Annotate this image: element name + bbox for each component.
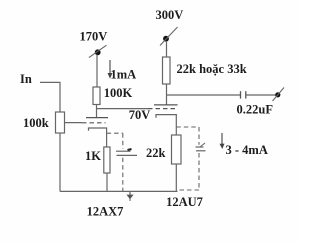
ground symbol (arrow) xyxy=(126,191,133,201)
wire cap to output terminal xyxy=(246,94,276,96)
node 70V label xyxy=(129,108,151,122)
resistor 22k (V2 cathode) xyxy=(172,135,182,164)
output terminal node xyxy=(273,88,285,102)
triode V2 plate xyxy=(154,104,178,106)
value label 0.22uF xyxy=(237,103,274,117)
wire C2 to ground (dashed) xyxy=(178,153,199,190)
svg-text:12AX7: 12AX7 xyxy=(87,205,124,219)
wire cathode to bypass cap C2 (dashed) xyxy=(176,127,199,145)
triode V1 cathode xyxy=(89,128,107,147)
svg-text:100K: 100K xyxy=(104,86,133,100)
capacitor C2 (V2 cathode bypass) xyxy=(196,143,206,151)
svg-text:300V: 300V xyxy=(156,8,184,22)
resistor 1K (V1 cathode) xyxy=(104,147,110,173)
power node 300V label xyxy=(156,8,184,22)
value label 3 - 4mA xyxy=(226,143,268,157)
value label 100K xyxy=(104,86,133,100)
wire R to V2 plate xyxy=(166,84,168,105)
wire 1K bottom to ground bus xyxy=(106,173,108,191)
wire 170V to R plate xyxy=(96,55,98,88)
svg-text:22k: 22k xyxy=(146,146,166,160)
triode V1 grid xyxy=(82,122,106,124)
tube label 12AU7 xyxy=(166,195,203,209)
svg-text:170V: 170V xyxy=(80,30,108,44)
wire C1 to ground bus (dashed) xyxy=(122,158,124,191)
triode V2 cathode xyxy=(156,115,176,135)
resistor 22k/33k (V2 plate load) xyxy=(163,57,171,84)
svg-text:In: In xyxy=(20,72,32,86)
value label 22k xyxy=(146,146,166,160)
wire 22k bottom to ground bus xyxy=(175,164,177,191)
current arrow 1mA xyxy=(108,60,113,79)
value label 1K xyxy=(85,149,101,163)
svg-text:100k: 100k xyxy=(23,116,49,130)
value label 1mA xyxy=(111,68,137,82)
current arrow 3-4mA xyxy=(220,133,225,149)
wire 300V to R plate 2 xyxy=(166,41,168,57)
tube label 12AX7 xyxy=(87,205,124,219)
svg-text:70V: 70V xyxy=(129,108,151,122)
resistor 100K (V1 plate load) xyxy=(93,87,100,105)
ground bus wire xyxy=(60,190,178,192)
svg-text:3 - 4mA: 3 - 4mA xyxy=(226,143,268,157)
triode V1 plate xyxy=(86,117,108,119)
value label 22k hoac 33k xyxy=(177,62,247,76)
svg-text:0.22uF: 0.22uF xyxy=(237,103,274,117)
power node 300V terminal xyxy=(160,27,178,46)
node In label xyxy=(20,72,32,86)
capacitor C1 (V1 cathode bypass) xyxy=(116,149,137,155)
svg-text:12AU7: 12AU7 xyxy=(166,195,203,209)
svg-text:1K: 1K xyxy=(85,149,101,163)
value label 100k xyxy=(23,116,49,130)
wire 100k bottom to ground bus xyxy=(59,133,61,191)
svg-text:1mA: 1mA xyxy=(111,68,137,82)
triode V2 grid xyxy=(148,108,178,110)
power node 170V label xyxy=(80,30,108,44)
wire In to grid column xyxy=(40,82,60,112)
wire 100K to V1 plate xyxy=(96,105,98,118)
capacitor 0.22uF (output) xyxy=(241,91,246,98)
wire cathode to bypass cap C1 (dashed) xyxy=(107,133,123,149)
power node 170V terminal xyxy=(89,45,107,57)
wire V1 plate to V2 grid (70V node) xyxy=(97,108,149,110)
wire plate node to output cap xyxy=(167,94,241,96)
resistor 100k (input) xyxy=(56,112,65,133)
wire grid tap to V1 grid xyxy=(65,122,83,124)
svg-text:22k hoặc 33k: 22k hoặc 33k xyxy=(177,62,247,76)
